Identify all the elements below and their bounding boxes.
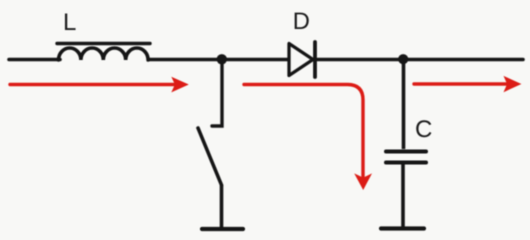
red current arrow 2 head (354, 173, 372, 190)
node junction at switch (217, 54, 227, 64)
switch lower wire (220, 185, 224, 228)
capacitor C bottom plate (386, 161, 426, 165)
inductor L windings (59, 48, 149, 60)
red current arrow 2 (through diode, down) shaft (244, 85, 363, 178)
capacitor lower lead wire (401, 164, 405, 228)
label L (65, 13, 76, 30)
diode D triangle (289, 44, 313, 76)
wire: left input segment (9, 58, 60, 62)
switch upper contact wire (212, 62, 222, 126)
capacitor bottom terminal bar (381, 226, 424, 230)
switch blade (open) (198, 128, 222, 185)
red current arrow 1 head (171, 77, 189, 93)
label C (416, 120, 431, 137)
switch bottom terminal bar (202, 227, 243, 231)
wire: inductor to diode anode (148, 58, 289, 62)
red current arrow 3 head (504, 76, 522, 92)
wire: diode cathode to output (315, 58, 523, 62)
red current arrow 1 (input) shaft (10, 83, 175, 86)
node junction at capacitor (398, 54, 408, 64)
capacitor upper lead wire (402, 62, 406, 149)
capacitor C top plate (386, 150, 426, 154)
label D (295, 13, 309, 29)
inductor L core bar (57, 42, 150, 45)
red current arrow 3 (output) shaft (414, 82, 507, 85)
diode D cathode bar (313, 42, 317, 77)
